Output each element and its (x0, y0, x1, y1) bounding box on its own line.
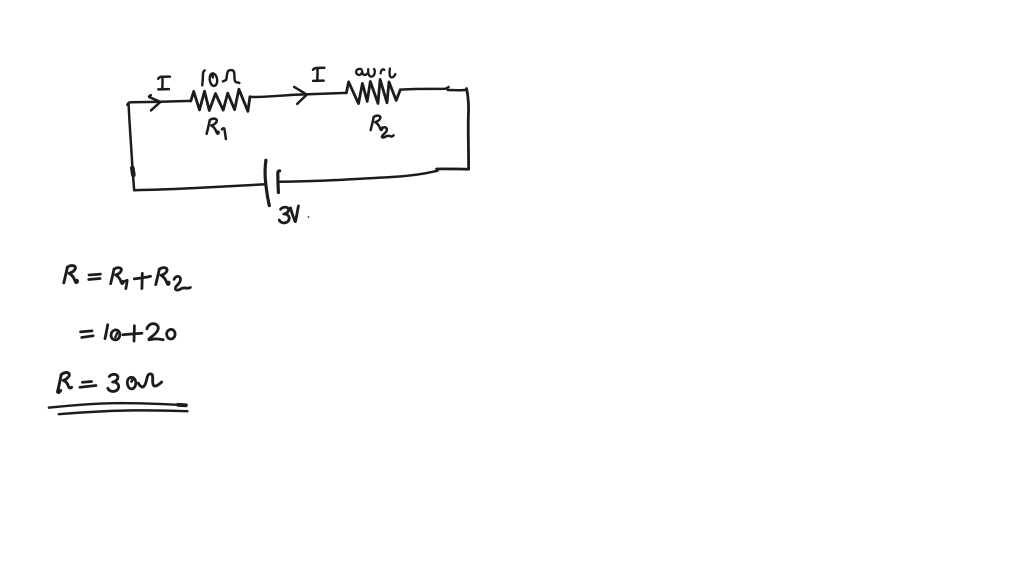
formula line1 plus (134, 276, 150, 279)
formula line3 omega (138, 374, 161, 387)
wire bottom sloped segment (281, 171, 438, 182)
underline 2 (59, 410, 188, 414)
wire right vertical (467, 89, 469, 169)
wire bottom left segment (134, 184, 265, 190)
formula line2 equals (81, 331, 93, 332)
resistor R2 (346, 79, 400, 103)
label 3V (279, 207, 289, 223)
wire top left segment (127, 101, 190, 105)
formula line3 equals (82, 380, 91, 383)
battery B1 long plate (265, 160, 269, 205)
label 10Ω value (202, 70, 204, 85)
junction blob on left wire (132, 168, 133, 175)
label I (middle) (313, 68, 324, 70)
formula line1 R1 (111, 268, 124, 284)
formula R = R1 + R2 : R (64, 266, 78, 283)
formula line3 R (58, 375, 62, 393)
label 20Ω value (356, 69, 367, 75)
formula line2 10 (105, 325, 108, 339)
formula line2 20 (147, 324, 163, 340)
battery B1 short plate (278, 171, 280, 193)
formula line3 30 (108, 374, 119, 391)
underline 1 (49, 403, 186, 407)
resistor R1 (191, 89, 250, 111)
label R1 designator (207, 119, 219, 134)
wire R2 to right corner (400, 87, 448, 90)
wire left vertical (129, 104, 135, 191)
formula line1 equals (89, 273, 100, 277)
current arrow I (left) (149, 95, 160, 110)
formula line2 plus (123, 333, 142, 334)
wire between R1 and R2 (250, 93, 346, 97)
wire bottom right segment (437, 167, 469, 170)
label R2 designator (371, 116, 382, 130)
current arrow I (middle) (294, 87, 307, 104)
formula line1 R2 (156, 268, 169, 285)
dot after 3V (308, 216, 310, 218)
label I (left) (158, 77, 170, 79)
